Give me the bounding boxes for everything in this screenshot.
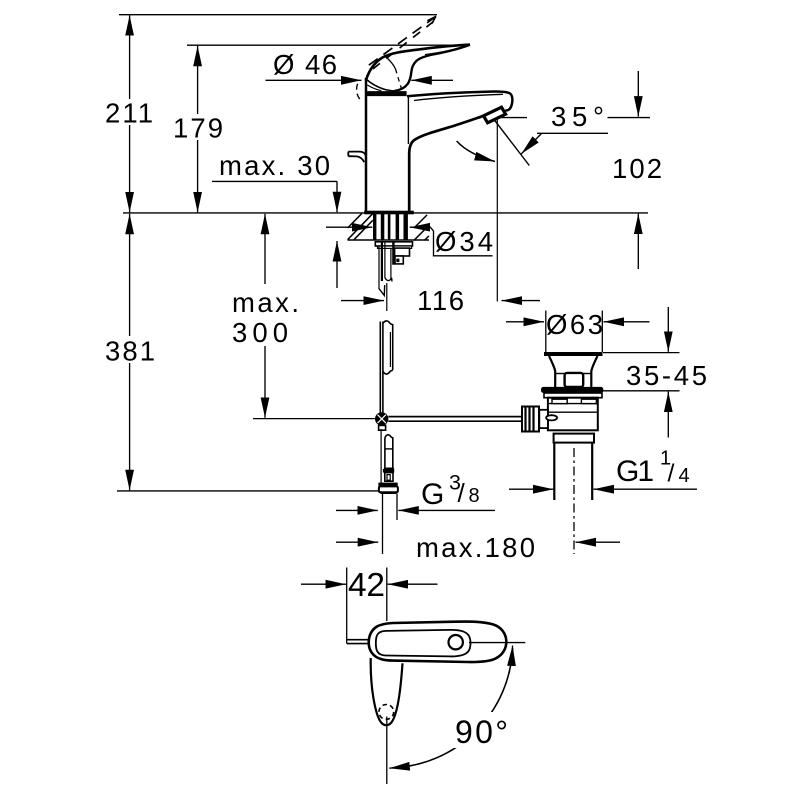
drain side port knurled nut (522, 407, 557, 432)
svg-text:42: 42 (348, 567, 385, 604)
spout top inner line (414, 94, 503, 100)
shank tube lines below deck (379, 242, 392, 295)
horizontal centerline right of handle (469, 642, 525, 644)
dimension 35 degrees (457, 101, 650, 166)
aerator (484, 107, 506, 123)
handle lower lobe (front view) (371, 658, 403, 725)
washer under deck (375, 242, 412, 249)
drain flange top (544, 352, 603, 356)
spout underside and body right edge (409, 116, 482, 211)
dimension 116 (341, 285, 540, 316)
dimension max.180 (336, 532, 620, 563)
tick line (179 reference) (187, 44, 470, 46)
flexible hose lower segment (381, 429, 394, 490)
lever top edge (366, 45, 470, 80)
svg-text:G: G (421, 478, 444, 511)
handle top view outline (369, 622, 507, 663)
spout axis extension line (496, 119, 498, 302)
dimension 179 (171, 46, 226, 213)
90 degree arc (389, 646, 512, 769)
faucet base thick edge on countertop (364, 211, 414, 215)
drain lower step band (554, 434, 594, 443)
drain flange taper (549, 356, 598, 387)
svg-text:max.180: max.180 (416, 532, 535, 563)
dimension Ø46 (266, 49, 454, 80)
lever front diagonal (367, 80, 397, 92)
dimension Ø63 (506, 309, 650, 352)
svg-text:381: 381 (105, 336, 155, 367)
G 3/8 hose connector (378, 469, 398, 493)
svg-text:/: / (458, 478, 466, 508)
faucet body left edge (365, 78, 368, 211)
lever tip underside (395, 45, 471, 91)
lever base thick band (366, 91, 407, 96)
flexible hose upper segment (383, 321, 393, 374)
dimension Ø34 with leader frame (326, 226, 493, 257)
pop-up rod horizontal extension line (253, 418, 375, 420)
dimension 102 (612, 71, 662, 269)
svg-text:8: 8 (469, 485, 480, 507)
dashed raised lever (357, 16, 436, 99)
dimension 35-45 (603, 307, 708, 438)
drain body (548, 398, 598, 431)
tick line top (211 reference) (119, 14, 437, 16)
dimension G 3/8 (336, 471, 495, 512)
threaded shank bars (373, 214, 408, 240)
countertop bottom line (348, 239, 430, 241)
svg-text:Ø34: Ø34 (435, 226, 493, 257)
svg-text:211: 211 (105, 98, 153, 129)
lever front crease (386, 57, 402, 89)
dimension G1 1/4 (509, 448, 697, 490)
svg-text:90°: 90° (455, 714, 508, 750)
dimension max. 30 (212, 150, 337, 288)
svg-text:Ø 46: Ø 46 (273, 49, 337, 80)
extension lines below connector (383, 494, 398, 555)
svg-text:35°: 35° (551, 101, 604, 132)
countertop hatching (348, 213, 429, 240)
lever inner tip line (425, 45, 470, 54)
svg-text:/: / (668, 460, 675, 488)
drain gasket ring (541, 387, 603, 393)
svg-text:4: 4 (679, 465, 690, 487)
pop-up rod tee ball (375, 412, 388, 430)
dimension 42 (301, 567, 438, 644)
long reference line under faucet (117, 490, 378, 492)
dimension 381 (103, 214, 158, 490)
svg-text:102: 102 (612, 153, 662, 184)
horizontal pop-up rod (388, 417, 521, 422)
vertical centerline below handle (386, 717, 388, 785)
svg-text:179: 179 (173, 113, 223, 144)
dimension max. 300 (232, 214, 299, 418)
drain plug knob (565, 373, 584, 387)
svg-text:116: 116 (417, 285, 464, 316)
spout top edge (407, 91, 512, 110)
pop-up knob hook (348, 152, 366, 163)
countertop line (123, 212, 648, 214)
svg-text:35-45: 35-45 (626, 360, 707, 391)
svg-text:Ø63: Ø63 (546, 309, 603, 340)
svg-text:300: 300 (232, 317, 288, 348)
faucet axis stub line (386, 283, 388, 311)
drain tailpipe (554, 443, 592, 500)
dimension 211 (103, 15, 156, 212)
svg-text:G1: G1 (616, 455, 654, 488)
handle stub left (347, 640, 369, 644)
body right inner edge (407, 97, 409, 145)
drain ring below gasket (544, 393, 602, 398)
pop-up rod upper (380, 322, 383, 414)
drain centerline (573, 448, 575, 554)
mounting nut (393, 242, 409, 264)
